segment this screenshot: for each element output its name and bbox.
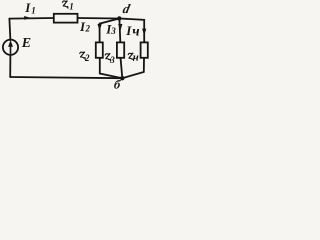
current arrow I1 on top wire (24, 16, 31, 20)
wire: branch z2 bottom to node b (100, 59, 123, 79)
node b junction dot (120, 76, 124, 80)
svg-text:I: I (24, 0, 31, 15)
wire: node d right then down to branch z4 (119, 19, 144, 43)
current arrow I4 on branch z4 (142, 29, 146, 36)
svg-text:2: 2 (85, 24, 91, 34)
wire: z1 to node d (78, 17, 120, 20)
background (0, 0, 155, 90)
impedance z4 box (141, 42, 148, 57)
wire: branch z4 bottom to node b (122, 59, 144, 79)
svg-text:3: 3 (110, 26, 116, 36)
svg-text:ч: ч (132, 25, 139, 40)
current arrow I2 on branch z2 (98, 24, 102, 31)
wire: left vertical upper (9, 19, 10, 41)
svg-text:E: E (21, 36, 31, 51)
svg-text:1: 1 (31, 6, 36, 16)
impedance z3 box (117, 42, 124, 57)
label z4 (128, 53, 133, 60)
impedance z1 box (54, 14, 78, 23)
source E circle (3, 40, 18, 55)
svg-text:3: 3 (109, 55, 115, 65)
impedance z2 box (96, 42, 103, 57)
label node d (122, 1, 132, 16)
wire: bottom from source to node b (10, 77, 122, 78)
EMF arrow inside source circle (10, 46, 12, 54)
label node b (113, 78, 122, 92)
svg-text:2: 2 (84, 53, 90, 63)
svg-text:I: I (125, 23, 132, 38)
wire: top left corner to z1 (9, 17, 53, 20)
wire: node d diagonal to branch z2 (100, 19, 120, 43)
label z1 (63, 1, 68, 8)
label z2 (80, 52, 85, 59)
wire: left vertical lower (9, 55, 11, 77)
node d junction dot (117, 16, 121, 20)
current arrow I3 on branch z3 (118, 24, 122, 31)
svg-text:ч: ч (133, 52, 139, 64)
label z3 (105, 54, 110, 61)
wire: node d down to branch z3 (118, 19, 121, 43)
svg-text:1: 1 (69, 1, 74, 11)
wire: branch z3 bottom to node b (121, 59, 123, 79)
